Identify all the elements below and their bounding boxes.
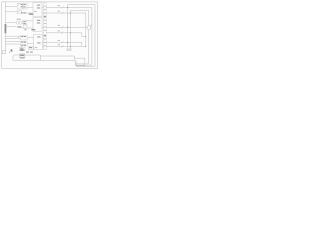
wire bus to K2 (5, 22, 16, 24)
switch S2 (61, 12, 64, 14)
module U1 (33, 3, 42, 17)
wire terminal drop (74, 56, 76, 60)
node L1 left supply bus (4, 2, 6, 51)
tick labels (58, 5, 60, 45)
wire jog down low (81, 42, 83, 46)
switch S1 (61, 6, 64, 8)
junction dots top (67, 7, 71, 14)
wire bus to K1 aux (5, 11, 17, 13)
label on left bus (5, 24, 7, 33)
wire U3 out phase 2 (42, 46, 45, 48)
label row above PLC (11, 49, 33, 52)
aux contact box K2b (24, 25, 27, 28)
junction dots low (67, 42, 71, 47)
terminal marks inner bus (67, 49, 69, 50)
node R3 right bus (88, 11, 90, 26)
wire U1 out phase 2 (42, 12, 44, 14)
wire U2 out phase 1 (42, 26, 44, 28)
terminal dots (74, 61, 77, 65)
lamp H1 (87, 26, 91, 30)
contactor K1 (17, 3, 22, 9)
PLC block (13, 55, 41, 61)
terminal strip edge (75, 61, 77, 67)
K1 value marks (21, 4, 34, 15)
junction dots mid (67, 27, 71, 34)
node dot (9, 52, 10, 53)
wire to corner (75, 58, 85, 66)
wire PLC out top (40, 55, 75, 57)
relay K2 box (23, 20, 27, 24)
module U3 (34, 35, 43, 50)
terminal X2 (28, 46, 33, 49)
module U2 (33, 18, 42, 32)
wire U3 out phase 1 (42, 41, 45, 43)
switch slash K1b (17, 11, 19, 13)
wire U2 out phase 2 (42, 32, 44, 34)
wire mid link (82, 35, 86, 37)
switch S5 (61, 41, 64, 43)
wire bus to K3 (5, 35, 20, 37)
switch slash K1a (17, 4, 19, 6)
wire top link a (68, 4, 95, 6)
wire PLC out bottom (40, 59, 75, 61)
switch S6 (61, 45, 64, 47)
switch S4 (61, 32, 64, 34)
wire bus to K1 coil (5, 6, 17, 8)
node R1 right bus outermost (76, 5, 95, 67)
node N1 inner bus a (67, 5, 69, 50)
node R4 right bus inner (85, 13, 87, 47)
terminal column X10 (44, 3, 47, 50)
relay K3 sub box (19, 48, 25, 51)
wire top link b (70, 10, 88, 12)
relay K3 box b (21, 41, 28, 46)
terminal X1 (3, 51, 6, 54)
switch S3 (61, 26, 64, 28)
relay K3 box a (21, 35, 28, 40)
motor starter Q1 circle b (19, 21, 22, 24)
lamp H1 arrow (90, 24, 92, 26)
wire U1 out phase 1 (42, 7, 44, 9)
wire K3 drop (21, 46, 23, 48)
wire K1 to U1 (27, 7, 33, 9)
wire bus to K2 aux (5, 26, 16, 28)
motor starter Q1 circle a (16, 21, 19, 24)
drawing frame (2, 2, 98, 69)
node R2 right bus (76, 8, 92, 66)
PLC inner module M1 (19, 54, 24, 57)
switch slash K3 (18, 36, 20, 38)
wire K2 to U2 (27, 20, 33, 22)
wire jog down (81, 33, 83, 37)
node N2 inner bus b (69, 11, 71, 50)
Q1 label (17, 19, 21, 20)
wire K3 to U3 (27, 36, 33, 38)
